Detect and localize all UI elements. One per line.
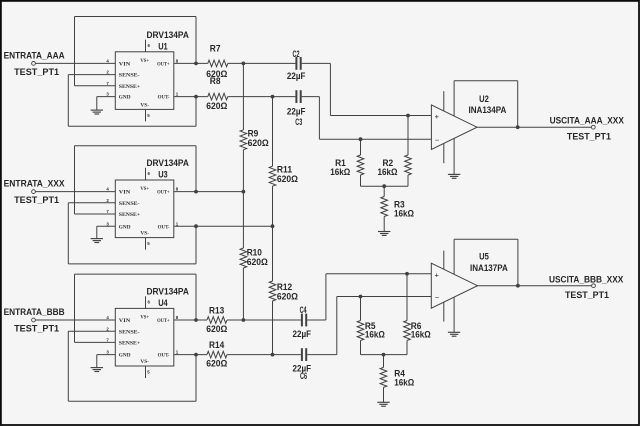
svg-text:R7: R7 — [210, 44, 221, 54]
svg-text:R12: R12 — [277, 282, 292, 292]
svg-text:C4: C4 — [300, 305, 307, 315]
svg-text:OUT-: OUT- — [158, 224, 170, 230]
svg-text:GND: GND — [119, 353, 131, 359]
svg-text:TEST_PT1: TEST_PT1 — [567, 132, 611, 142]
svg-text:16kΩ: 16kΩ — [411, 330, 431, 340]
junction U3 OUT- loop — [194, 224, 198, 228]
U3 pin 6 VS+ stub — [145, 168, 147, 180]
junction U1 OUT- loop — [194, 95, 198, 99]
svg-text:620Ω: 620Ω — [206, 358, 227, 368]
svg-text:620Ω: 620Ω — [247, 257, 268, 267]
svg-text:VIN: VIN — [119, 62, 131, 68]
svg-text:VS+: VS+ — [140, 58, 149, 64]
wire R4 to ground — [383, 387, 385, 402]
junction R1 top on - input row — [359, 137, 363, 141]
svg-text:VS-: VS- — [140, 359, 149, 365]
capacitor C4 — [301, 314, 303, 327]
svg-text:USCITA_AAA_XXX: USCITA_AAA_XXX — [550, 115, 624, 125]
resistor R2 — [407, 116, 409, 156]
svg-text:16kΩ: 16kΩ — [394, 378, 414, 388]
ground symbol R3 — [378, 231, 390, 233]
svg-text:VS-: VS- — [140, 102, 149, 108]
test point ENTRATA_BBB — [32, 318, 36, 322]
U2 label box — [454, 80, 518, 82]
op-amp U5 triangle — [431, 263, 477, 308]
capacitor C6 — [301, 348, 303, 361]
svg-text:−: − — [435, 293, 440, 302]
resistor R10 — [240, 248, 247, 268]
wire U3 SENSE- pin 2 — [68, 202, 115, 204]
svg-text:U5: U5 — [479, 252, 489, 262]
U3 pin 5 VS- stub — [145, 238, 147, 250]
wire U1 GND pin 3 — [97, 96, 116, 98]
wire column R11 top — [272, 97, 274, 167]
wire U1 OUT+ row to R7 — [174, 62, 208, 64]
wire R12 to U4 OUT- row — [272, 301, 274, 355]
junction R12/R14 at U4 OUT- — [271, 353, 275, 357]
svg-text:C3: C3 — [295, 117, 302, 127]
junction R9/R10 at U3 OUT+ — [242, 190, 246, 194]
resistor R7 — [208, 60, 228, 67]
svg-text:22µF: 22µF — [293, 329, 312, 339]
ground symbol at U3 GND — [96, 226, 98, 238]
wire R10 to U4 OUT+ row — [242, 268, 244, 320]
junction R2 top on + input row — [406, 114, 410, 118]
wire R8 to C3 — [228, 96, 296, 98]
ground symbol U2 — [448, 173, 460, 175]
IC U3 DRV134PA body — [115, 180, 174, 238]
svg-text:−: − — [435, 136, 440, 145]
svg-text:C2: C2 — [293, 49, 300, 59]
junction U4 OUT- loop — [194, 353, 198, 357]
U5 label box — [454, 238, 518, 240]
wire input ENTRATA_AAA to U1 VIN pin 4 — [35, 62, 115, 64]
svg-text:OUT-: OUT- — [158, 95, 170, 101]
wire C4 to U5 + input — [307, 319, 326, 321]
svg-text:22µF: 22µF — [287, 71, 306, 81]
wire C2 to U2 + input — [302, 62, 331, 64]
svg-text:ENTRATA_AAA: ENTRATA_AAA — [4, 51, 65, 61]
capacitor C3 — [295, 90, 297, 103]
svg-text:ENTRATA_XXX: ENTRATA_XXX — [4, 179, 65, 189]
wire R3 to ground — [383, 217, 385, 232]
junction U5 box to output — [516, 284, 520, 288]
wire R5/R6 bottom node — [360, 341, 362, 355]
resistor R6 — [406, 274, 408, 321]
svg-text:SENSE-: SENSE- — [119, 73, 140, 79]
svg-text:VS+: VS+ — [140, 186, 149, 192]
svg-text:16kΩ: 16kΩ — [394, 208, 414, 218]
feedback loop wire U1 OUT- to SENSE- — [67, 75, 69, 127]
U1 pin 6 VS+ stub — [145, 40, 147, 52]
svg-text:SENSE+: SENSE+ — [119, 212, 140, 218]
junction U2 box to output — [516, 125, 520, 129]
feedback loop wire U3 OUT- to SENSE- — [67, 203, 69, 264]
wire U4 SENSE- pin 2 — [68, 330, 115, 332]
resistor R1 — [360, 139, 362, 155]
svg-text:DRV134PA: DRV134PA — [147, 30, 190, 40]
feedback loop wire U3 OUT+ to SENSE+ — [74, 146, 76, 214]
wire U2 output — [477, 126, 591, 128]
svg-text:620Ω: 620Ω — [277, 292, 298, 302]
svg-text:U2: U2 — [479, 94, 489, 104]
svg-text:INA134PA: INA134PA — [469, 105, 507, 115]
svg-text:SENSE-: SENSE- — [119, 201, 140, 207]
junction R10/R13 at U4 OUT+ — [242, 318, 246, 322]
test point USCITA_AAA_XXX — [591, 125, 595, 129]
svg-text:620Ω: 620Ω — [206, 101, 227, 111]
resistor R11 — [269, 166, 276, 186]
junction node R8/R11 — [271, 95, 275, 99]
svg-text:ENTRATA_BBB: ENTRATA_BBB — [4, 307, 65, 317]
resistor R9 — [240, 130, 247, 150]
svg-text:16kΩ: 16kΩ — [378, 167, 398, 177]
wire column R9 top — [242, 63, 244, 129]
wire U4 SENSE+ pin 7 — [75, 341, 116, 343]
svg-text:OUT+: OUT+ — [157, 190, 170, 196]
svg-text:TEST_PT1: TEST_PT1 — [14, 323, 59, 333]
ground symbol R4 — [377, 401, 389, 403]
op-amp U2 triangle — [431, 105, 477, 150]
ground symbol U5 — [448, 331, 460, 333]
U1 pin 5 VS- stub — [145, 109, 147, 121]
svg-text:VIN: VIN — [119, 190, 131, 196]
wire U1 SENSE- pin 2 — [68, 74, 115, 76]
resistor R5 — [360, 297, 362, 321]
svg-text:R8: R8 — [210, 76, 221, 86]
svg-text:INA137PA: INA137PA — [470, 263, 508, 273]
test point USCITA_BBB_XXX — [592, 284, 596, 288]
junction R11/R12 at U3 OUT- — [271, 224, 275, 228]
wire U1 SENSE+ pin 7 — [75, 85, 116, 87]
resistor R12 — [269, 281, 276, 301]
resistor R14 — [207, 351, 227, 358]
wire U4 GND pin 3 — [97, 354, 116, 356]
svg-text:USCITA_BBB_XXX: USCITA_BBB_XXX — [549, 274, 623, 284]
svg-text:OUT+: OUT+ — [157, 318, 170, 324]
op-amp U2 power stub V+ — [443, 91, 445, 112]
resistor R8 — [208, 93, 228, 100]
svg-text:+: + — [435, 112, 440, 121]
svg-text:SENSE+: SENSE+ — [119, 341, 140, 347]
svg-text:OUT+: OUT+ — [157, 62, 170, 68]
test point ENTRATA_AAA — [32, 62, 36, 66]
op-amp U5 power stub V+ — [443, 251, 445, 271]
wire U1 OUT- row to R8 — [174, 96, 208, 98]
wire R14 to C6 — [227, 354, 301, 356]
U4 pin 6 VS+ stub — [145, 296, 147, 308]
wire U3 OUT+ row to column A — [174, 191, 244, 193]
svg-text:620Ω: 620Ω — [206, 324, 227, 334]
svg-text:22µF: 22µF — [287, 107, 306, 117]
wire R7 to C2 — [228, 62, 296, 64]
wire U3 SENSE+ pin 7 — [75, 213, 116, 215]
junction U4 OUT+ loop — [194, 318, 198, 322]
svg-text:VS-: VS- — [140, 231, 149, 237]
junction U1 OUT+ loop — [194, 62, 198, 66]
test point ENTRATA_XXX — [32, 190, 36, 194]
wire U4 OUT- row to R14 — [174, 354, 207, 356]
svg-text:R13: R13 — [209, 306, 224, 316]
op-amp U5 power stub V- — [443, 301, 445, 322]
feedback loop wire U1 OUT+ to SENSE+ — [74, 17, 76, 86]
wire C6 to U5 - input — [307, 354, 337, 356]
wire U3 OUT- row to column B — [174, 225, 273, 227]
U4 pin 5 VS- stub — [145, 366, 147, 378]
resistor R13 — [207, 317, 227, 324]
svg-text:U4: U4 — [158, 298, 168, 308]
svg-text:U1: U1 — [158, 41, 168, 51]
wire R13 to C4 — [227, 319, 301, 321]
svg-text:VS+: VS+ — [140, 314, 149, 320]
svg-text:U3: U3 — [158, 170, 168, 180]
resistor R4 — [383, 355, 385, 368]
junction U3 OUT+ loop — [194, 190, 198, 194]
svg-text:16kΩ: 16kΩ — [330, 167, 350, 177]
wire U5 output — [478, 285, 592, 287]
wire R11 to U3 OUT- row — [272, 186, 274, 226]
svg-text:SENSE-: SENSE- — [119, 329, 140, 335]
junction R5 top on - input row — [359, 295, 363, 299]
IC U1 DRV134PA body — [115, 52, 174, 110]
feedback loop wire U4 OUT+ to SENSE+ — [74, 274, 76, 342]
wire R9 to U3 OUT+ row — [242, 150, 244, 192]
wire R1/R2 bottom node — [360, 175, 362, 186]
junction R6 top on + input row — [405, 272, 409, 276]
op-amp U2 power stub V- — [443, 142, 445, 163]
svg-text:SENSE+: SENSE+ — [119, 84, 140, 90]
wire R10 top — [242, 192, 244, 249]
svg-text:TEST_PT1: TEST_PT1 — [14, 195, 59, 205]
junction R3 top — [382, 184, 386, 188]
svg-text:TEST_PT1: TEST_PT1 — [14, 67, 59, 77]
resistor R3 — [383, 186, 385, 196]
svg-text:GND: GND — [119, 224, 131, 230]
wire U4 OUT+ row to R13 — [174, 319, 207, 321]
wire R12 top — [272, 226, 274, 281]
svg-text:R14: R14 — [209, 340, 224, 350]
svg-text:DRV134PA: DRV134PA — [147, 158, 190, 168]
svg-text:16kΩ: 16kΩ — [365, 330, 385, 340]
svg-text:TEST_PT1: TEST_PT1 — [565, 290, 609, 300]
IC U4 DRV134PA body — [115, 308, 174, 366]
svg-text:GND: GND — [119, 95, 131, 101]
svg-text:DRV134PA: DRV134PA — [147, 286, 190, 296]
svg-text:+: + — [435, 270, 440, 279]
svg-text:VIN: VIN — [119, 318, 131, 324]
wire C3 to U2 - input — [302, 96, 320, 98]
ground symbol at U1 GND — [96, 97, 98, 111]
ground symbol at U4 GND — [96, 355, 98, 368]
feedback loop wire U4 OUT- to SENSE- — [67, 331, 69, 401]
junction R4 top — [382, 353, 386, 357]
wire input ENTRATA_BBB to U4 VIN pin 4 — [35, 319, 115, 321]
svg-text:OUT-: OUT- — [158, 353, 170, 359]
svg-text:R10: R10 — [247, 247, 262, 257]
wire input ENTRATA_XXX to U3 VIN pin 4 — [35, 191, 115, 193]
junction node R7/R9 — [242, 62, 246, 66]
svg-text:620Ω: 620Ω — [277, 174, 298, 184]
wire U3 GND pin 3 — [97, 225, 116, 227]
capacitor C2 — [295, 57, 297, 70]
svg-text:620Ω: 620Ω — [248, 138, 269, 148]
svg-text:C6: C6 — [300, 371, 307, 381]
